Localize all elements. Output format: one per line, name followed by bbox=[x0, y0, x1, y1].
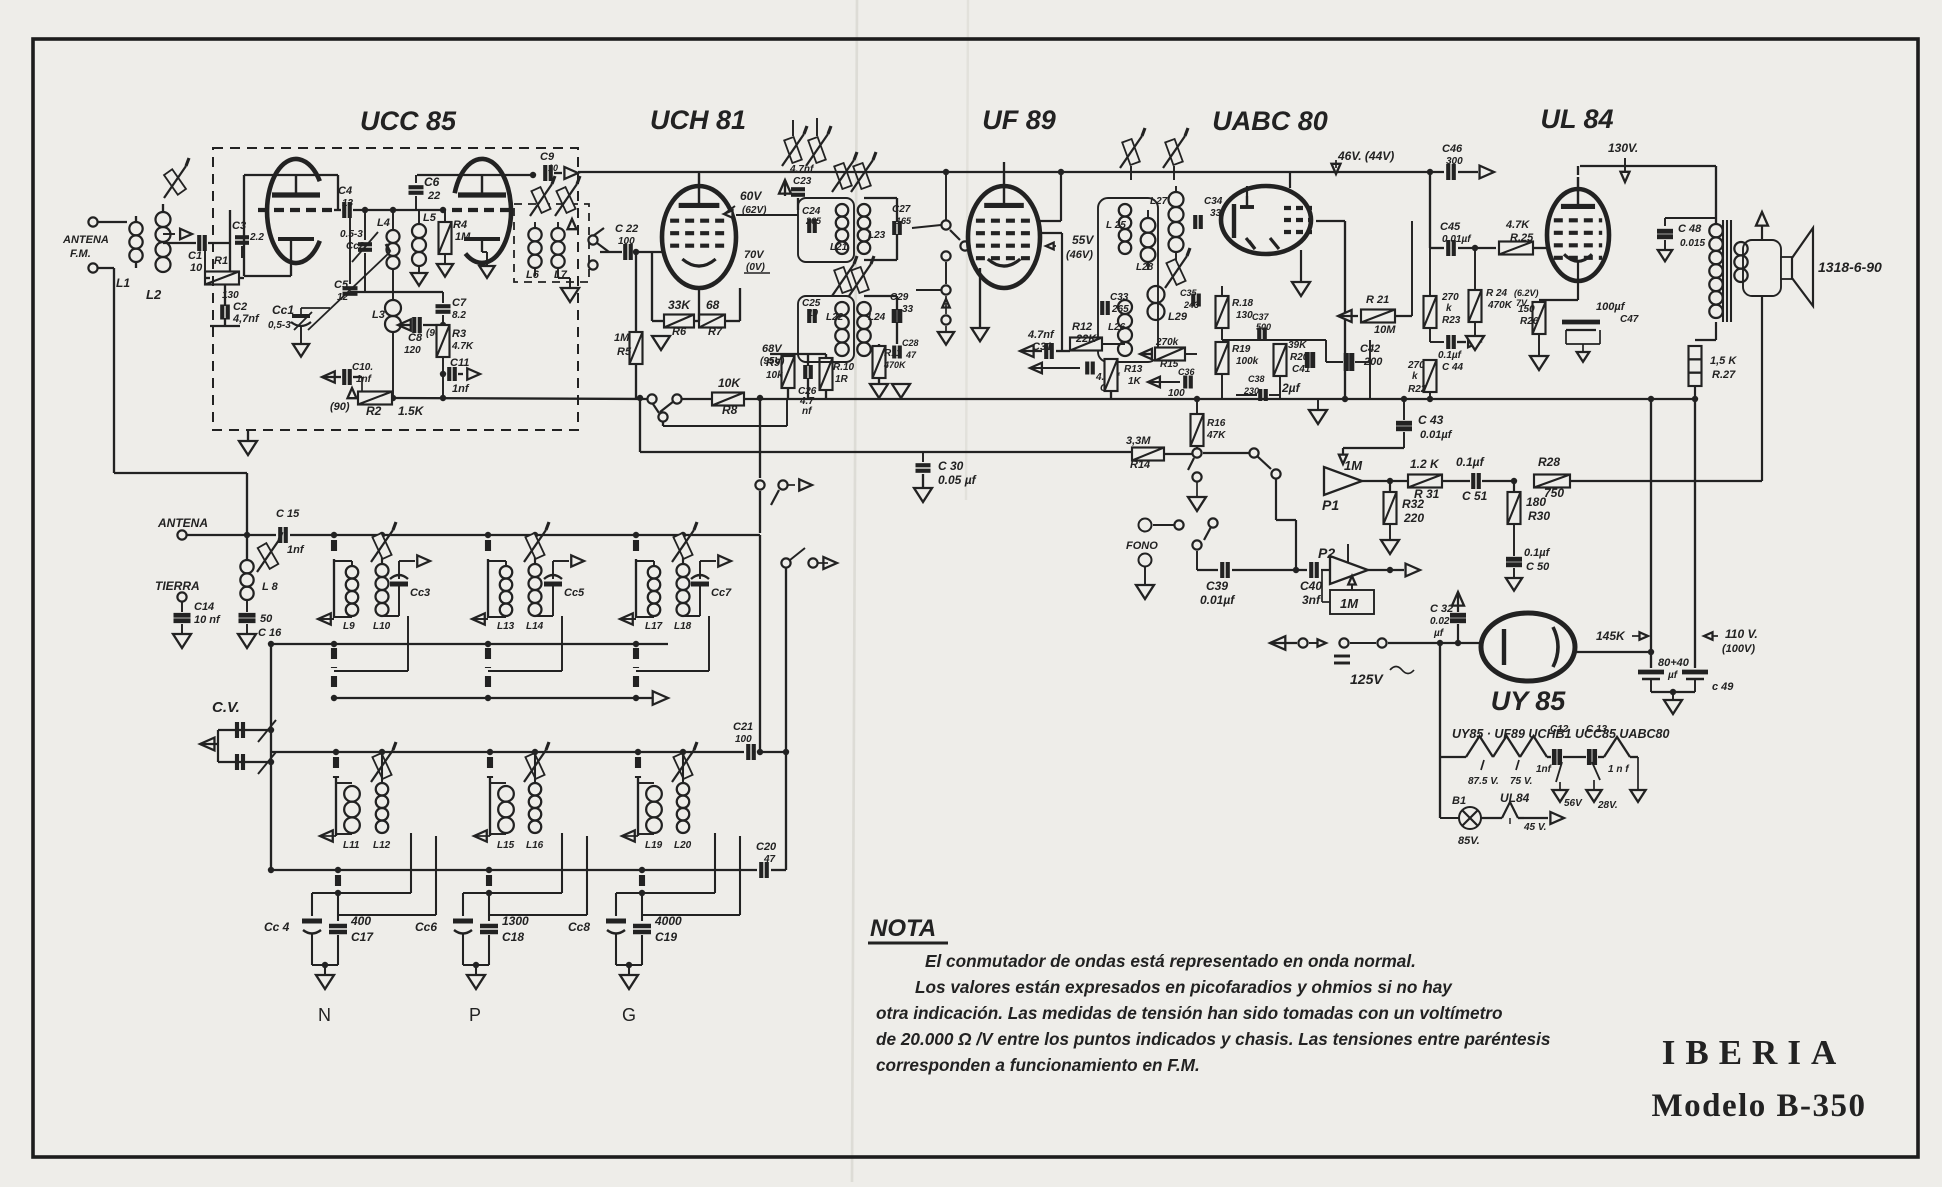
svg-text:125V: 125V bbox=[1350, 671, 1384, 687]
svg-text:C29: C29 bbox=[890, 292, 909, 303]
svg-text:C37: C37 bbox=[1252, 312, 1270, 322]
svg-text:L27: L27 bbox=[1150, 196, 1168, 207]
svg-text:R3: R3 bbox=[452, 328, 466, 340]
svg-text:110 V.: 110 V. bbox=[1725, 627, 1758, 641]
svg-text:2µf: 2µf bbox=[1281, 381, 1301, 395]
svg-text:FONO: FONO bbox=[1126, 540, 1158, 552]
svg-text:400: 400 bbox=[350, 914, 371, 928]
svg-text:4.7K: 4.7K bbox=[451, 341, 474, 352]
svg-text:100: 100 bbox=[735, 734, 752, 745]
svg-text:(95V): (95V) bbox=[760, 356, 785, 367]
svg-text:R23: R23 bbox=[1442, 315, 1461, 326]
svg-text:UL 84: UL 84 bbox=[1540, 104, 1613, 134]
svg-text:UL84: UL84 bbox=[1500, 791, 1530, 805]
svg-text:C45: C45 bbox=[1440, 221, 1461, 233]
svg-text:270: 270 bbox=[1407, 360, 1425, 371]
svg-text:L11: L11 bbox=[343, 840, 360, 851]
svg-text:1,5 K: 1,5 K bbox=[1710, 355, 1737, 367]
svg-text:33: 33 bbox=[902, 304, 914, 315]
svg-text:1300: 1300 bbox=[502, 914, 529, 928]
svg-text:L3: L3 bbox=[372, 309, 385, 321]
svg-text:1nf: 1nf bbox=[452, 383, 470, 395]
svg-text:C35: C35 bbox=[1180, 288, 1198, 298]
svg-text:270: 270 bbox=[1441, 292, 1459, 303]
svg-text:R7: R7 bbox=[708, 326, 723, 338]
svg-text:1.2 K: 1.2 K bbox=[1410, 457, 1440, 471]
svg-text:10: 10 bbox=[808, 308, 818, 318]
svg-text:L1: L1 bbox=[116, 276, 130, 290]
svg-text:R.10: R.10 bbox=[833, 362, 855, 373]
svg-text:470K: 470K bbox=[883, 360, 907, 370]
svg-text:C 48: C 48 bbox=[1678, 223, 1702, 235]
svg-text:NOTA: NOTA bbox=[870, 915, 936, 942]
svg-text:47K: 47K bbox=[1206, 430, 1226, 441]
svg-text:100: 100 bbox=[1168, 388, 1185, 399]
svg-text:1K: 1K bbox=[1128, 376, 1142, 387]
svg-text:C20: C20 bbox=[756, 841, 777, 853]
svg-text:470K: 470K bbox=[1487, 300, 1513, 311]
svg-text:C 32: C 32 bbox=[1430, 603, 1453, 615]
svg-text:10: 10 bbox=[190, 262, 203, 274]
svg-text:L19: L19 bbox=[645, 840, 663, 851]
svg-text:750: 750 bbox=[1544, 486, 1564, 500]
svg-text:L28: L28 bbox=[1136, 262, 1154, 273]
svg-text:UY 85: UY 85 bbox=[1491, 686, 1567, 716]
svg-text:(100V): (100V) bbox=[1722, 643, 1755, 655]
svg-text:R6: R6 bbox=[672, 326, 687, 338]
svg-text:UF 89: UF 89 bbox=[982, 105, 1056, 135]
svg-text:L22: L22 bbox=[826, 312, 844, 323]
svg-text:1R: 1R bbox=[835, 374, 849, 385]
svg-text:10K: 10K bbox=[718, 376, 741, 390]
svg-text:180: 180 bbox=[1526, 495, 1546, 509]
svg-text:22: 22 bbox=[427, 190, 440, 202]
svg-text:R14: R14 bbox=[1130, 459, 1150, 471]
svg-text:145K: 145K bbox=[1596, 629, 1626, 643]
svg-text:39K: 39K bbox=[1288, 340, 1307, 351]
svg-text:(46V): (46V) bbox=[1066, 249, 1093, 261]
svg-text:C7: C7 bbox=[452, 297, 467, 309]
svg-text:C14: C14 bbox=[194, 601, 214, 613]
svg-text:1nf: 1nf bbox=[356, 374, 373, 385]
svg-text:C1: C1 bbox=[188, 250, 202, 262]
svg-text:4000: 4000 bbox=[654, 914, 682, 928]
svg-text:L24: L24 bbox=[868, 312, 886, 323]
svg-text:R8: R8 bbox=[722, 403, 738, 417]
svg-text:B1: B1 bbox=[1452, 795, 1466, 807]
svg-text:C 16: C 16 bbox=[258, 627, 282, 639]
svg-text:3,3M: 3,3M bbox=[1126, 435, 1151, 447]
svg-text:0.02: 0.02 bbox=[1430, 616, 1450, 627]
svg-text:46V. (44V): 46V. (44V) bbox=[1337, 149, 1394, 163]
svg-text:L12: L12 bbox=[373, 840, 391, 851]
svg-text:0.01µf: 0.01µf bbox=[1420, 429, 1453, 441]
svg-text:243: 243 bbox=[1183, 300, 1199, 310]
svg-text:UABC 80: UABC 80 bbox=[1212, 106, 1328, 136]
svg-text:C5: C5 bbox=[334, 279, 349, 291]
svg-text:C27: C27 bbox=[892, 204, 911, 215]
svg-text:P1: P1 bbox=[1322, 497, 1339, 513]
svg-text:L7: L7 bbox=[554, 269, 568, 281]
svg-text:C46: C46 bbox=[1442, 143, 1463, 155]
svg-text:28V.: 28V. bbox=[1597, 800, 1618, 811]
svg-text:k: k bbox=[1446, 303, 1452, 314]
svg-text:R15: R15 bbox=[1160, 359, 1179, 370]
svg-text:0.05 µf: 0.05 µf bbox=[938, 473, 977, 487]
svg-text:1M: 1M bbox=[455, 231, 471, 243]
svg-text:F.M.: F.M. bbox=[70, 248, 91, 260]
svg-text:50: 50 bbox=[260, 613, 273, 625]
svg-text:L10: L10 bbox=[373, 621, 391, 632]
svg-text:C23: C23 bbox=[793, 176, 812, 187]
svg-text:1M: 1M bbox=[1340, 596, 1359, 611]
svg-text:UCH 81: UCH 81 bbox=[650, 105, 746, 135]
svg-text:R26: R26 bbox=[1520, 316, 1539, 327]
svg-text:L17: L17 bbox=[645, 621, 663, 632]
svg-text:0.01µf: 0.01µf bbox=[1442, 234, 1472, 245]
svg-text:C21: C21 bbox=[733, 721, 753, 733]
svg-text:C 15: C 15 bbox=[276, 508, 300, 520]
svg-text:C 51: C 51 bbox=[1462, 489, 1488, 503]
svg-text:C6: C6 bbox=[424, 175, 440, 189]
svg-text:13: 13 bbox=[342, 198, 354, 209]
svg-text:L23: L23 bbox=[868, 230, 886, 241]
svg-text:N: N bbox=[318, 1005, 331, 1025]
svg-text:1M: 1M bbox=[1344, 458, 1363, 473]
svg-text:22K: 22K bbox=[1075, 333, 1097, 345]
svg-text:R28: R28 bbox=[1538, 455, 1560, 469]
svg-text:k: k bbox=[1412, 371, 1418, 382]
svg-text:33: 33 bbox=[1210, 208, 1222, 219]
svg-text:L21: L21 bbox=[830, 242, 848, 253]
svg-text:4.7K: 4.7K bbox=[1505, 219, 1530, 231]
svg-text:150: 150 bbox=[1518, 304, 1535, 315]
svg-text:R4: R4 bbox=[453, 219, 467, 231]
svg-text:0.1µf: 0.1µf bbox=[1524, 547, 1551, 559]
svg-text:C12: C12 bbox=[1550, 724, 1569, 735]
svg-text:C40: C40 bbox=[1300, 579, 1322, 593]
svg-text:C4: C4 bbox=[338, 185, 352, 197]
svg-text:Cc 4: Cc 4 bbox=[264, 920, 290, 934]
svg-text:100: 100 bbox=[618, 236, 635, 247]
svg-text:C 50: C 50 bbox=[1526, 561, 1550, 573]
svg-text:(6.2V): (6.2V) bbox=[1514, 288, 1539, 298]
svg-text:0.1µf: 0.1µf bbox=[1456, 455, 1485, 469]
svg-text:Cc3: Cc3 bbox=[410, 587, 430, 599]
svg-text:L 8: L 8 bbox=[262, 581, 279, 593]
svg-text:R.27: R.27 bbox=[1712, 369, 1736, 381]
svg-text:120: 120 bbox=[404, 345, 421, 356]
svg-text:Cc5: Cc5 bbox=[564, 587, 585, 599]
svg-text:R30: R30 bbox=[1528, 509, 1550, 523]
svg-text:C 44: C 44 bbox=[1442, 362, 1464, 373]
svg-text:Modelo B-350: Modelo B-350 bbox=[1651, 1088, 1866, 1124]
svg-text:3nf: 3nf bbox=[1302, 593, 1321, 607]
svg-text:R12: R12 bbox=[1072, 321, 1092, 333]
svg-text:R 21: R 21 bbox=[1366, 294, 1389, 306]
svg-text:nf: nf bbox=[802, 406, 813, 417]
svg-text:R.25: R.25 bbox=[1510, 232, 1534, 244]
svg-text:R16: R16 bbox=[1207, 418, 1226, 429]
svg-text:C11: C11 bbox=[450, 357, 469, 369]
svg-text:µf: µf bbox=[1433, 628, 1445, 639]
svg-text:C38: C38 bbox=[1248, 374, 1265, 384]
svg-text:33K: 33K bbox=[668, 298, 691, 312]
svg-text:L20: L20 bbox=[674, 840, 692, 851]
svg-text:C28: C28 bbox=[902, 338, 919, 348]
svg-text:87.5 V.: 87.5 V. bbox=[1468, 776, 1499, 787]
svg-text:L16: L16 bbox=[526, 840, 544, 851]
svg-text:C19: C19 bbox=[655, 930, 677, 944]
svg-text:P2: P2 bbox=[1318, 545, 1335, 561]
svg-text:ANTENA: ANTENA bbox=[62, 234, 109, 246]
svg-text:C18: C18 bbox=[502, 930, 524, 944]
svg-text:C9: C9 bbox=[540, 151, 555, 163]
svg-text:1nf: 1nf bbox=[1536, 764, 1553, 775]
svg-text:500: 500 bbox=[1256, 322, 1271, 332]
svg-text:C 13: C 13 bbox=[1586, 724, 1608, 735]
svg-text:1318-6-90: 1318-6-90 bbox=[1818, 259, 1882, 275]
svg-text:R.18: R.18 bbox=[1232, 298, 1254, 309]
svg-text:1 n f: 1 n f bbox=[1608, 764, 1630, 775]
svg-text:85V.: 85V. bbox=[1458, 835, 1480, 847]
svg-text:Cc7: Cc7 bbox=[711, 587, 732, 599]
svg-text:C17: C17 bbox=[351, 930, 374, 944]
svg-text:L13: L13 bbox=[497, 621, 515, 632]
svg-text:C.V.: C.V. bbox=[212, 699, 240, 716]
svg-text:Cc8: Cc8 bbox=[568, 920, 590, 934]
svg-text:L14: L14 bbox=[526, 621, 544, 632]
svg-text:L4: L4 bbox=[377, 217, 390, 229]
svg-text:55V: 55V bbox=[1072, 233, 1094, 247]
svg-text:R 24: R 24 bbox=[1486, 288, 1508, 299]
svg-text:75 V.: 75 V. bbox=[1510, 776, 1532, 787]
svg-text:130: 130 bbox=[1236, 310, 1253, 321]
svg-text:R1: R1 bbox=[214, 255, 228, 267]
svg-text:10M: 10M bbox=[1374, 324, 1396, 336]
svg-text:(90): (90) bbox=[330, 401, 350, 413]
svg-text:C8: C8 bbox=[408, 332, 423, 344]
svg-text:C 43: C 43 bbox=[1418, 413, 1444, 427]
svg-text:56V: 56V bbox=[1564, 798, 1583, 809]
svg-text:0.1µf: 0.1µf bbox=[1438, 350, 1463, 361]
svg-text:C2: C2 bbox=[233, 301, 247, 313]
svg-text:130V.: 130V. bbox=[1608, 141, 1638, 155]
svg-text:4.7nf: 4.7nf bbox=[1027, 329, 1055, 341]
svg-text:UCC 85: UCC 85 bbox=[360, 106, 457, 136]
svg-text:60V: 60V bbox=[740, 189, 762, 203]
svg-text:R19: R19 bbox=[1232, 344, 1251, 355]
svg-text:R5: R5 bbox=[617, 346, 632, 358]
svg-text:Los valores están expresados e: Los valores están expresados en picofara… bbox=[915, 977, 1453, 997]
svg-text:10k: 10k bbox=[766, 370, 783, 381]
svg-text:L2: L2 bbox=[146, 287, 162, 302]
svg-text:L18: L18 bbox=[674, 621, 692, 632]
svg-text:C34: C34 bbox=[1204, 196, 1223, 207]
svg-text:68V: 68V bbox=[762, 343, 783, 355]
svg-text:corresponden a funcionamiento: corresponden a funcionamiento en F.M. bbox=[876, 1055, 1200, 1075]
svg-text:R22: R22 bbox=[1408, 384, 1427, 395]
svg-text:L5: L5 bbox=[423, 212, 437, 224]
svg-text:L6: L6 bbox=[526, 269, 540, 281]
svg-text:c 49: c 49 bbox=[1712, 681, 1734, 693]
svg-text:1.5K: 1.5K bbox=[398, 404, 425, 418]
svg-text:(0V): (0V) bbox=[746, 262, 766, 273]
svg-text:P: P bbox=[469, 1005, 481, 1025]
svg-text:C39: C39 bbox=[1206, 579, 1228, 593]
svg-text:C 22: C 22 bbox=[615, 223, 638, 235]
svg-text:R13: R13 bbox=[1124, 364, 1143, 375]
svg-text:4,7nf: 4,7nf bbox=[232, 313, 260, 325]
svg-text:70V: 70V bbox=[744, 249, 765, 261]
svg-text:2.2: 2.2 bbox=[249, 232, 264, 243]
svg-text:4.7nf: 4.7nf bbox=[789, 164, 815, 175]
svg-text:de 20.000 Ω /V entre los punto: de 20.000 Ω /V entre los puntos indicado… bbox=[876, 1029, 1550, 1049]
svg-text:L15: L15 bbox=[497, 840, 515, 851]
svg-text:8.2: 8.2 bbox=[452, 310, 466, 321]
svg-text:Cc1: Cc1 bbox=[272, 303, 294, 317]
svg-text:220: 220 bbox=[1403, 511, 1424, 525]
svg-text:ANTENA: ANTENA bbox=[157, 516, 208, 530]
svg-text:L26: L26 bbox=[1108, 322, 1126, 333]
svg-text:C36: C36 bbox=[1178, 367, 1196, 377]
svg-text:G: G bbox=[622, 1005, 636, 1025]
svg-text:270k: 270k bbox=[1155, 337, 1179, 348]
svg-text:R 31: R 31 bbox=[1414, 487, 1440, 501]
svg-text:47: 47 bbox=[905, 350, 917, 360]
svg-text:TIERRA: TIERRA bbox=[155, 579, 200, 593]
svg-text:10: 10 bbox=[548, 163, 558, 173]
svg-text:0.01µf: 0.01µf bbox=[1200, 593, 1235, 607]
svg-text:IBERIA: IBERIA bbox=[1662, 1033, 1846, 1072]
svg-text:R2: R2 bbox=[366, 404, 382, 418]
svg-text:68: 68 bbox=[706, 298, 720, 312]
svg-text:C 30: C 30 bbox=[938, 459, 964, 473]
svg-text:C31: C31 bbox=[1032, 341, 1052, 353]
svg-text:1nf: 1nf bbox=[287, 544, 305, 556]
svg-text:L 25: L 25 bbox=[1106, 220, 1126, 231]
svg-text:100µf: 100µf bbox=[1596, 301, 1626, 313]
svg-text:0.5-3: 0.5-3 bbox=[340, 229, 363, 240]
svg-text:L29: L29 bbox=[1168, 311, 1188, 323]
svg-text:10 nf: 10 nf bbox=[194, 614, 221, 626]
svg-text:165: 165 bbox=[896, 216, 912, 226]
svg-text:300: 300 bbox=[1446, 156, 1463, 167]
svg-text:L9: L9 bbox=[343, 621, 355, 632]
svg-text:µf: µf bbox=[1667, 670, 1679, 681]
svg-text:C10.: C10. bbox=[352, 362, 373, 373]
svg-text:265: 265 bbox=[805, 216, 822, 226]
svg-text:1M: 1M bbox=[614, 332, 630, 344]
svg-text:47: 47 bbox=[763, 854, 776, 865]
svg-text:80+40: 80+40 bbox=[1658, 657, 1690, 669]
svg-text:0.015: 0.015 bbox=[1680, 238, 1705, 249]
svg-text:otra indicación. Las medidas d: otra indicación. Las medidas de tensión … bbox=[876, 1003, 1503, 1023]
svg-text:100k: 100k bbox=[1236, 356, 1259, 367]
svg-text:45 V.: 45 V. bbox=[1523, 822, 1546, 833]
svg-text:C47: C47 bbox=[1620, 314, 1639, 325]
svg-text:Cc6: Cc6 bbox=[415, 920, 437, 934]
svg-text:El conmutador de ondas está re: El conmutador de ondas está representado… bbox=[925, 951, 1416, 971]
svg-text:0,5-3: 0,5-3 bbox=[268, 320, 291, 331]
